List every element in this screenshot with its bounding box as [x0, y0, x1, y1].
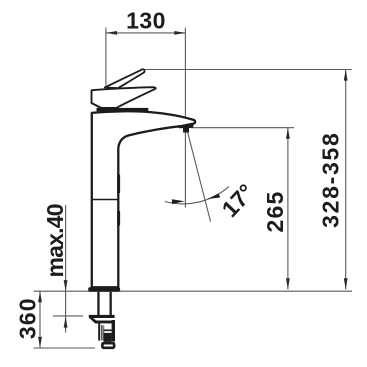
- svg-text:max.40: max.40: [42, 204, 68, 277]
- 40mm reference line below deck: [53, 315, 83, 317]
- leader line from lever tip to 328-358 dimension: [144, 69, 352, 71]
- threaded shank left wall: [97, 292, 99, 316]
- column right edge tick lower: [117, 211, 120, 226]
- mounting nut left slant: [89, 318, 100, 324]
- dark joint band under handle: [97, 108, 149, 112]
- hose end fitting: [102, 343, 114, 348]
- dimension line max.40 (deck thickness): [64, 205, 68, 333]
- hose inner stripe dark: [101, 325, 103, 341]
- dimension line 328-358 (total height dimension): [344, 70, 348, 290]
- mixer handle body: [92, 87, 156, 108]
- base flange on deck: [88, 287, 120, 292]
- faucet spout body and column: [92, 111, 195, 287]
- lever handle: [105, 69, 145, 88]
- dimension line 360 (hose length below deck): [38, 291, 42, 348]
- extension line left of 130 dimension: [105, 28, 107, 86]
- hose inner stripe light: [103, 326, 104, 341]
- hose right wall: [112, 320, 115, 342]
- extension line right of 130 dimension (continues down to spout outlet): [184, 28, 186, 208]
- aerator wedge at spout tip: [177, 123, 194, 129]
- hose dark block: [104, 333, 112, 342]
- hose collar bar: [104, 330, 112, 332]
- svg-text:328-358: 328-358: [318, 132, 344, 228]
- threaded shank right wall: [110, 292, 112, 316]
- mounting nut top bar: [89, 315, 115, 318]
- deck / countertop line: [34, 290, 353, 292]
- angle dimension arc: [165, 187, 229, 204]
- bottom reference line (hose end): [34, 347, 96, 349]
- arc arrowhead right (points at stream line): [208, 194, 221, 200]
- dimension line 265 (spout outlet height dimension): [286, 128, 290, 290]
- water stream angle line: [187, 131, 210, 222]
- svg-text:130: 130: [126, 8, 166, 34]
- svg-text:265: 265: [262, 191, 288, 233]
- dimension line 130 (top width dimension): [106, 31, 185, 35]
- aerator outlet nub: [183, 128, 189, 133]
- column joint line: [92, 199, 119, 201]
- hose left wall: [98, 323, 100, 340]
- mounting nut lower bar: [96, 321, 114, 324]
- column right edge tick upper: [117, 175, 120, 194]
- arc arrowhead left (points at vertical reference line): [172, 199, 185, 204]
- leader line from spout outlet to 265 dimension: [192, 127, 295, 129]
- svg-text:360: 360: [14, 297, 40, 339]
- svg-text:17°: 17°: [216, 179, 259, 222]
